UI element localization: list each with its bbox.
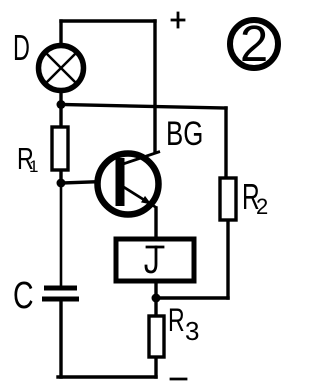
svg-text:2: 2 — [240, 15, 268, 72]
svg-text:C: C — [13, 275, 34, 317]
svg-text:D: D — [13, 29, 30, 68]
svg-text:BG: BG — [166, 116, 203, 153]
svg-text:R: R — [168, 302, 185, 338]
svg-text:3: 3 — [185, 316, 199, 346]
svg-text:2: 2 — [256, 194, 268, 219]
svg-text:1: 1 — [29, 157, 38, 176]
